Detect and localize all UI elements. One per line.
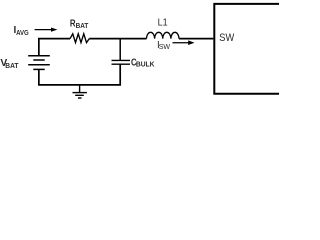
svg-text:SW: SW [219, 32, 234, 44]
svg-text:BAT: BAT [76, 23, 89, 30]
svg-text:BULK: BULK [136, 59, 155, 68]
svg-text:SW: SW [159, 43, 171, 51]
svg-text:L1: L1 [158, 18, 168, 29]
svg-text:AVG: AVG [16, 30, 29, 37]
svg-text:BAT: BAT [5, 61, 19, 70]
